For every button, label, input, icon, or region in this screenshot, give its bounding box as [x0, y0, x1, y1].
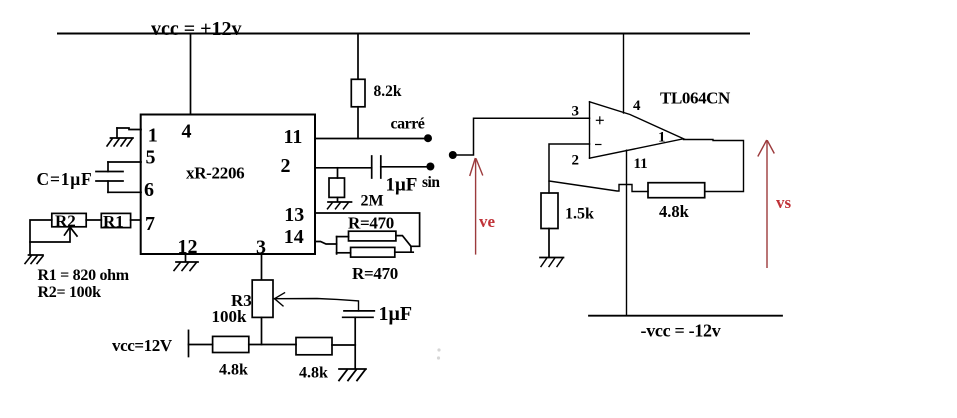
svg-text:sin: sin: [422, 174, 440, 191]
resistor R=470 top: [349, 231, 396, 241]
wire pin2 to cap: [315, 167, 372, 169]
svg-text:ve: ve: [479, 212, 496, 231]
wire pin13: [316, 213, 420, 246]
resistor R1: [101, 213, 130, 227]
resistor 4.8k left: [213, 336, 249, 352]
svg-text:2: 2: [281, 155, 291, 177]
svg-text:12: 12: [178, 236, 198, 258]
node carré output dot: [424, 134, 432, 142]
wire vcc +12v top rail: [58, 33, 749, 35]
op-amp plus sign: [595, 116, 604, 144]
wire R3 bottom: [261, 317, 263, 344]
svg-text:4: 4: [633, 98, 641, 114]
wire cap to sin dot: [381, 166, 431, 168]
svg-text:1.5k: 1.5k: [565, 206, 594, 223]
wire 4.8k right to cap node: [332, 344, 355, 346]
wire node2 to feedback diagonal: [549, 181, 648, 192]
node ve input dot: [449, 151, 457, 159]
svg-text:R2= 100k: R2= 100k: [38, 284, 102, 301]
wire rail to op-amp pin 4: [623, 34, 625, 114]
svg-text:2M: 2M: [361, 193, 384, 210]
resistor 2M: [329, 178, 345, 197]
red arrow vs: [758, 140, 775, 268]
wire pin11 output: [315, 138, 428, 140]
capacitor 1uF bottom: [344, 310, 374, 312]
wire pin14: [316, 242, 337, 245]
svg-text:1: 1: [148, 124, 158, 146]
wire R2 to R1: [86, 219, 101, 221]
wire pin2 to 2M: [337, 168, 339, 178]
wire 1.5k to ground: [548, 229, 550, 258]
svg-text:R1: R1: [103, 212, 124, 231]
svg-text:vcc=12V: vcc=12V: [112, 336, 173, 355]
svg-text:TL064CN: TL064CN: [660, 89, 731, 108]
svg-text:R=470: R=470: [348, 214, 394, 233]
wire R2 wiper: [30, 228, 70, 242]
capacitor C=1uF: [96, 171, 123, 173]
svg-text:11: 11: [634, 156, 648, 172]
wire rail to IC pin 4: [190, 34, 192, 115]
svg-text:4.8k: 4.8k: [219, 362, 248, 379]
wire opamp pin11 down to -12v rail: [626, 150, 628, 315]
svg-text:vcc = +12v: vcc = +12v: [151, 18, 242, 40]
terminal vcc=12V: [188, 330, 190, 356]
capacitor 1uF sin: [371, 156, 373, 178]
svg-text:vs: vs: [776, 193, 792, 212]
op-amp minus sign: [595, 144, 602, 146]
svg-text:5: 5: [146, 147, 156, 169]
ground bottom: [339, 368, 366, 370]
wire rail to 8.2k: [357, 34, 359, 80]
wire pin7 stub: [131, 219, 141, 221]
svg-text:6: 6: [144, 179, 154, 201]
op-amp U1 TL064CN triangle: [590, 102, 684, 158]
wire R3 wiper from cap: [275, 299, 359, 311]
wire 4.8k to R3 node: [249, 344, 296, 346]
wire -vcc rail: [589, 315, 782, 317]
ground pin12: [176, 261, 198, 263]
svg-text:R2: R2: [55, 212, 76, 231]
svg-text:1μF: 1μF: [379, 303, 413, 325]
svg-text:3: 3: [256, 237, 266, 259]
ground 2M: [337, 197, 339, 201]
resistor R2 potentiometer: [52, 213, 86, 226]
ground pin1: [116, 128, 118, 138]
svg-text:7: 7: [145, 213, 155, 235]
faint artifact dots: [437, 348, 440, 351]
svg-text:14: 14: [284, 226, 304, 248]
resistor R3 potentiometer: [252, 280, 273, 317]
svg-text:4.8k: 4.8k: [299, 365, 328, 382]
wire R470 left node: [336, 237, 338, 254]
wire node to ground: [354, 345, 356, 369]
wire pin5 stub: [108, 161, 141, 163]
ground 1.5k: [540, 257, 564, 259]
wire opamp pin2 input: [549, 144, 590, 193]
svg-text:carré: carré: [391, 116, 425, 133]
wire sin dot to opamp pin3: [453, 118, 590, 155]
svg-text:11: 11: [284, 126, 303, 148]
resistor 4.8k feedback: [648, 183, 705, 198]
wire terminal to 4.8k: [189, 344, 213, 346]
node sin output dot: [426, 163, 434, 171]
svg-text:4.8k: 4.8k: [659, 202, 690, 221]
svg-text:8.2k: 8.2k: [374, 83, 402, 100]
wire pin12 stub: [185, 254, 187, 262]
wire pin3 down: [261, 254, 263, 279]
wire cap down: [354, 317, 356, 344]
resistor 1.5k: [541, 193, 558, 229]
ground R2: [29, 254, 44, 256]
svg-text:-vcc = -12v: -vcc = -12v: [641, 321, 721, 341]
resistor 8.2k: [351, 79, 365, 107]
svg-text:3: 3: [572, 104, 580, 120]
svg-text:R1 = 820 ohm: R1 = 820 ohm: [38, 267, 130, 284]
resistor 4.8k right: [296, 338, 332, 355]
wire R2 left to ground: [30, 220, 52, 255]
wire 8.2k to pin11 line: [357, 107, 359, 139]
svg-text:2: 2: [572, 153, 580, 169]
svg-text:13: 13: [284, 204, 304, 226]
svg-text:R=470: R=470: [352, 264, 398, 283]
svg-text:xR-2206: xR-2206: [186, 164, 244, 183]
ic U2 xR-2206 box: [141, 115, 315, 255]
red arrow ve: [470, 158, 483, 255]
svg-text:4: 4: [182, 121, 192, 143]
wire pin1 stub: [117, 128, 141, 130]
wire R470 right node: [396, 236, 411, 252]
resistor R=470 bottom: [351, 247, 395, 257]
svg-text:100k: 100k: [212, 307, 248, 326]
svg-text:1: 1: [658, 130, 666, 146]
wire pin6 stub: [107, 181, 109, 192]
svg-text:1μF: 1μF: [386, 175, 418, 196]
svg-text:C=1μF: C=1μF: [37, 169, 93, 189]
wire opamp output feedback loop: [684, 140, 744, 192]
